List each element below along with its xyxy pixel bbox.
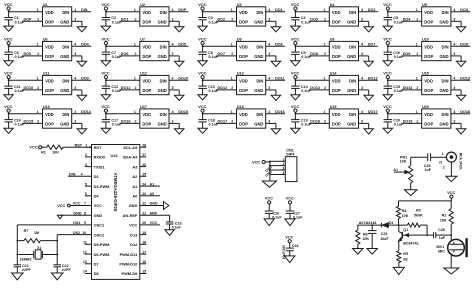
- svg-text:13: 13: [83, 260, 87, 264]
- svg-text:2: 2: [324, 120, 326, 124]
- svg-text:VCC: VCC: [101, 70, 110, 75]
- svg-text:U12: U12: [140, 72, 147, 76]
- svg-text:DO6: DO6: [121, 52, 129, 56]
- svg-text:1: 1: [134, 77, 136, 81]
- svg-text:A0: A0: [359, 221, 364, 225]
- svg-text:VDD: VDD: [142, 79, 151, 84]
- svg-text:U10: U10: [422, 38, 429, 42]
- svg-text:D4: D4: [94, 194, 100, 199]
- svg-text:R7: R7: [24, 229, 29, 233]
- svg-text:DO17: DO17: [368, 110, 378, 114]
- svg-text:3: 3: [172, 120, 174, 124]
- svg-text:GND: GND: [60, 121, 69, 126]
- svg-text:R5: R5: [403, 252, 408, 256]
- svg-text:3: 3: [85, 163, 87, 167]
- svg-text:GND: GND: [158, 54, 167, 59]
- svg-text:1: 1: [416, 77, 418, 81]
- svg-text:DIN: DIN: [62, 10, 69, 15]
- svg-text:DO17: DO17: [218, 120, 228, 124]
- svg-text:U8: U8: [237, 38, 242, 42]
- svg-text:3: 3: [74, 86, 76, 90]
- svg-text:VCC: VCC: [198, 70, 207, 75]
- svg-text:R6: R6: [363, 232, 368, 236]
- svg-text:GND: GND: [347, 19, 356, 24]
- svg-text:U7: U7: [140, 38, 145, 42]
- svg-text:1: 1: [37, 77, 39, 81]
- svg-text:VCC: VCC: [198, 36, 207, 41]
- svg-text:GND: GND: [347, 88, 356, 93]
- svg-text:DIN: DIN: [442, 79, 449, 84]
- svg-text:GND: GND: [150, 202, 159, 206]
- svg-text:DOP: DOP: [424, 19, 433, 24]
- svg-text:DO11: DO11: [275, 77, 284, 81]
- svg-text:2: 2: [135, 120, 137, 124]
- svg-text:DIN: DIN: [160, 45, 167, 50]
- svg-text:DO16: DO16: [121, 120, 131, 124]
- svg-text:10: 10: [82, 231, 86, 235]
- svg-text:U20: U20: [422, 105, 429, 109]
- svg-text:2: 2: [37, 120, 39, 124]
- svg-text:2: 2: [231, 52, 233, 56]
- svg-text:1: 1: [323, 43, 325, 47]
- svg-text:VCC: VCC: [383, 104, 392, 109]
- svg-text:10K: 10K: [402, 214, 409, 218]
- svg-text:DIN: DIN: [160, 10, 167, 15]
- svg-text:VDD: VDD: [332, 45, 341, 50]
- svg-text:A0: A0: [150, 192, 155, 196]
- svg-text:3: 3: [74, 52, 76, 56]
- svg-text:U19: U19: [330, 105, 337, 109]
- svg-text:DOP: DOP: [45, 121, 54, 126]
- svg-text:DIN: DIN: [349, 112, 356, 117]
- svg-text:4: 4: [74, 8, 76, 12]
- svg-text:VCC: VCC: [4, 36, 13, 41]
- svg-text:VDD: VDD: [45, 79, 54, 84]
- svg-text:4: 4: [282, 171, 284, 175]
- svg-text:3: 3: [361, 18, 363, 22]
- svg-text:VCC: VCC: [150, 221, 158, 225]
- svg-text:U1: U1: [43, 3, 48, 7]
- svg-text:DO18: DO18: [310, 120, 320, 124]
- svg-text:6: 6: [85, 192, 87, 196]
- svg-text:7: 7: [84, 202, 86, 206]
- svg-text:DO13: DO13: [310, 86, 320, 90]
- svg-text:VDD: VDD: [424, 112, 433, 117]
- svg-text:SCL-A5: SCL-A5: [123, 145, 138, 150]
- svg-text:16MHZ: 16MHZ: [20, 257, 33, 261]
- svg-text:2: 2: [231, 18, 233, 22]
- svg-text:VCC: VCC: [383, 2, 392, 7]
- svg-text:VDD: VDD: [332, 79, 341, 84]
- svg-text:1: 1: [37, 43, 39, 47]
- svg-text:12: 12: [83, 250, 87, 254]
- svg-text:VDD: VDD: [45, 45, 54, 50]
- svg-text:DO3: DO3: [460, 8, 468, 12]
- svg-text:RCA JACK: RCA JACK: [458, 153, 462, 171]
- svg-text:DO1: DO1: [275, 8, 283, 12]
- svg-text:3: 3: [74, 18, 76, 22]
- svg-text:22: 22: [142, 202, 146, 206]
- svg-text:VCC: VCC: [101, 2, 110, 7]
- svg-text:10K: 10K: [400, 159, 407, 163]
- svg-text:OS2: OS2: [73, 231, 80, 235]
- svg-text:2: 2: [231, 120, 233, 124]
- svg-text:GND: GND: [347, 121, 356, 126]
- svg-text:DIN: DIN: [349, 10, 356, 15]
- svg-text:X1: X1: [37, 246, 41, 250]
- svg-text:U16: U16: [43, 105, 50, 109]
- svg-text:DO12: DO12: [368, 77, 378, 81]
- svg-text:DO8: DO8: [460, 43, 468, 47]
- svg-text:DIN: DIN: [62, 45, 69, 50]
- svg-text:1: 1: [416, 110, 418, 114]
- svg-text:1M: 1M: [34, 231, 39, 235]
- svg-text:VCC: VCC: [4, 70, 13, 75]
- svg-text:VDD: VDD: [142, 10, 151, 15]
- svg-text:A1: A1: [132, 184, 138, 189]
- svg-text:4: 4: [453, 110, 455, 114]
- svg-text:GND: GND: [254, 19, 263, 24]
- svg-text:DO7: DO7: [218, 52, 226, 56]
- svg-text:ARF: ARF: [150, 211, 158, 215]
- svg-text:4: 4: [172, 110, 174, 114]
- svg-text:DO2: DO2: [218, 18, 226, 22]
- svg-text:GND: GND: [60, 88, 69, 93]
- svg-text:DO15: DO15: [178, 110, 188, 114]
- svg-text:GND: GND: [60, 54, 69, 59]
- svg-text:A2: A2: [132, 174, 138, 179]
- svg-text:OSC1: OSC1: [94, 223, 105, 228]
- svg-text:28: 28: [142, 143, 146, 147]
- svg-text:GND: GND: [158, 121, 167, 126]
- svg-text:2: 2: [37, 52, 39, 56]
- svg-text:1uF: 1uF: [439, 236, 446, 240]
- svg-text:DO12: DO12: [218, 86, 228, 90]
- svg-text:DOP: DOP: [332, 19, 341, 24]
- svg-text:VCC: VCC: [286, 196, 294, 201]
- svg-text:VCC: VCC: [94, 203, 102, 208]
- svg-text:15: 15: [142, 270, 146, 274]
- svg-text:DOP: DOP: [239, 121, 248, 126]
- svg-text:VDD: VDD: [45, 10, 54, 15]
- svg-text:OS1: OS1: [73, 221, 80, 225]
- svg-text:D8: D8: [94, 271, 100, 276]
- svg-text:SDA-A4: SDA-A4: [123, 155, 138, 160]
- svg-text:2: 2: [37, 18, 39, 22]
- svg-text:1: 1: [416, 8, 418, 12]
- svg-text:3: 3: [282, 167, 284, 171]
- svg-text:1: 1: [231, 8, 233, 12]
- svg-text:8: 8: [84, 211, 86, 215]
- svg-text:4: 4: [74, 77, 76, 81]
- svg-text:DO11: DO11: [121, 86, 130, 90]
- svg-text:VCC: VCC: [291, 70, 300, 75]
- svg-text:20: 20: [142, 221, 146, 225]
- svg-text:GND: GND: [158, 88, 167, 93]
- svg-text:DOP: DOP: [142, 19, 151, 24]
- svg-text:DO1: DO1: [121, 18, 129, 22]
- svg-text:VDD: VDD: [424, 10, 433, 15]
- svg-text:VDD: VDD: [239, 112, 248, 117]
- svg-text:VDD: VDD: [239, 79, 248, 84]
- svg-text:DIN: DIN: [62, 79, 69, 84]
- svg-text:19: 19: [142, 231, 146, 235]
- svg-text:R2: R2: [442, 214, 447, 218]
- svg-text:VDD: VDD: [142, 112, 151, 117]
- svg-text:DO4: DO4: [403, 18, 412, 22]
- svg-text:U9: U9: [330, 38, 335, 42]
- svg-text:1: 1: [231, 43, 233, 47]
- svg-text:16: 16: [142, 260, 146, 264]
- svg-text:U14: U14: [330, 72, 338, 76]
- svg-text:GND: GND: [439, 121, 448, 126]
- svg-text:3: 3: [268, 120, 270, 124]
- svg-text:3: 3: [453, 120, 455, 124]
- svg-text:U15: U15: [422, 72, 429, 76]
- svg-text:4: 4: [268, 8, 270, 12]
- svg-text:R1: R1: [41, 150, 46, 154]
- svg-text:C29: C29: [381, 232, 388, 236]
- svg-text:1: 1: [231, 77, 233, 81]
- svg-text:U2: U2: [140, 3, 145, 7]
- svg-text:3: 3: [268, 18, 270, 22]
- svg-text:1: 1: [416, 43, 418, 47]
- svg-text:R3: R3: [416, 209, 421, 213]
- svg-text:PWM-D9: PWM-D9: [122, 271, 139, 276]
- svg-text:RST: RST: [94, 145, 102, 150]
- svg-text:VCC: VCC: [252, 159, 260, 164]
- svg-text:0.1uF: 0.1uF: [272, 215, 282, 219]
- svg-text:DIN: DIN: [256, 112, 263, 117]
- svg-text:DO9: DO9: [81, 77, 89, 81]
- svg-text:25: 25: [142, 173, 146, 177]
- svg-text:DIN: DIN: [349, 79, 356, 84]
- svg-text:GND: GND: [439, 54, 448, 59]
- svg-text:2: 2: [135, 52, 137, 56]
- svg-text:GND: GND: [254, 88, 263, 93]
- svg-text:DIN: DIN: [349, 45, 356, 50]
- svg-text:U18: U18: [237, 105, 244, 109]
- svg-text:VCC: VCC: [4, 104, 13, 109]
- svg-text:DIN: DIN: [160, 79, 167, 84]
- svg-text:GND: GND: [439, 19, 448, 24]
- svg-text:DIN: DIN: [256, 79, 263, 84]
- svg-text:DOP: DOP: [239, 54, 248, 59]
- svg-text:10K: 10K: [440, 218, 447, 222]
- svg-text:DO14: DO14: [81, 110, 92, 114]
- svg-text:VDD: VDD: [332, 10, 341, 15]
- svg-text:PWM-D10: PWM-D10: [119, 262, 137, 267]
- svg-text:U5: U5: [422, 3, 427, 7]
- svg-text:2: 2: [416, 120, 418, 124]
- svg-text:2: 2: [231, 86, 233, 90]
- svg-text:D13: D13: [130, 232, 138, 237]
- svg-text:OSC2: OSC2: [94, 232, 105, 237]
- svg-text:A1: A1: [393, 168, 398, 172]
- svg-text:560K: 560K: [414, 213, 423, 217]
- svg-text:DIN: DIN: [442, 10, 449, 15]
- svg-text:TX/D1: TX/D1: [94, 164, 106, 169]
- svg-text:DOP: DOP: [142, 121, 151, 126]
- svg-text:4: 4: [81, 173, 83, 177]
- svg-text:1: 1: [37, 110, 39, 114]
- svg-text:3: 3: [268, 52, 270, 56]
- svg-text:VCC: VCC: [383, 36, 392, 41]
- svg-text:1: 1: [37, 8, 39, 12]
- svg-text:DO5: DO5: [24, 52, 32, 56]
- svg-text:DOP: DOP: [424, 54, 433, 59]
- svg-text:DO8: DO8: [310, 52, 318, 56]
- svg-text:2: 2: [135, 18, 137, 22]
- svg-text:18: 18: [142, 241, 146, 245]
- svg-text:2: 2: [324, 18, 326, 22]
- svg-text:GND: GND: [347, 54, 356, 59]
- svg-text:VCC: VCC: [57, 204, 65, 208]
- svg-text:D7: D7: [94, 262, 99, 267]
- svg-text:4: 4: [74, 110, 76, 114]
- svg-text:9: 9: [84, 221, 86, 225]
- svg-text:VCC: VCC: [447, 190, 455, 195]
- svg-text:GND: GND: [254, 54, 263, 59]
- svg-text:U17: U17: [140, 105, 147, 109]
- svg-text:1: 1: [442, 152, 444, 156]
- svg-text:DOP: DOP: [45, 54, 54, 59]
- svg-text:U13: U13: [237, 72, 244, 76]
- svg-text:AN-REF: AN-REF: [123, 213, 138, 218]
- svg-text:0E: 0E: [403, 258, 408, 262]
- svg-text:10uF: 10uF: [380, 237, 389, 241]
- svg-text:10K: 10K: [52, 150, 59, 154]
- svg-text:3: 3: [453, 52, 455, 56]
- svg-text:2: 2: [37, 86, 39, 90]
- svg-text:DOP: DOP: [142, 88, 151, 93]
- svg-text:1: 1: [134, 8, 136, 12]
- svg-text:DOP: DOP: [332, 54, 341, 59]
- svg-text:2: 2: [324, 52, 326, 56]
- svg-text:DOP: DOP: [45, 19, 54, 24]
- svg-text:DIN: DIN: [442, 45, 449, 50]
- svg-text:17: 17: [142, 250, 146, 254]
- svg-text:3: 3: [172, 86, 174, 90]
- svg-text:VDD: VDD: [142, 45, 151, 50]
- svg-text:DO7: DO7: [368, 43, 376, 47]
- svg-text:VCC: VCC: [291, 104, 300, 109]
- svg-text:GND: GND: [254, 121, 263, 126]
- svg-text:DIN: DIN: [81, 8, 88, 12]
- svg-text:DO10: DO10: [24, 86, 34, 90]
- svg-text:D1: D1: [389, 221, 394, 225]
- svg-text:DO4: DO4: [81, 43, 90, 47]
- svg-text:A3: A3: [132, 164, 138, 169]
- svg-text:3: 3: [74, 120, 76, 124]
- svg-text:4: 4: [74, 43, 76, 47]
- svg-text:4: 4: [172, 43, 174, 47]
- svg-text:GND: GND: [60, 19, 69, 24]
- svg-text:3: 3: [268, 86, 270, 90]
- svg-text:VDD: VDD: [332, 112, 341, 117]
- svg-text:22PF: 22PF: [22, 268, 32, 272]
- svg-text:1N4148: 1N4148: [364, 221, 377, 225]
- svg-text:4: 4: [453, 43, 455, 47]
- svg-text:DO14: DO14: [403, 86, 414, 90]
- svg-text:3: 3: [453, 18, 455, 22]
- svg-text:DO9: DO9: [403, 52, 411, 56]
- svg-text:2: 2: [416, 86, 418, 90]
- svg-text:DO15: DO15: [24, 120, 34, 124]
- svg-text:DIN: DIN: [442, 112, 449, 117]
- svg-text:3: 3: [361, 120, 363, 124]
- svg-text:VCC: VCC: [29, 144, 38, 149]
- svg-text:3: 3: [172, 52, 174, 56]
- svg-text:GND: GND: [94, 213, 103, 218]
- svg-text:1: 1: [323, 77, 325, 81]
- svg-text:DOP: DOP: [332, 88, 341, 93]
- svg-text:2: 2: [135, 86, 137, 90]
- svg-text:DO13: DO13: [460, 77, 470, 81]
- svg-text:14: 14: [83, 270, 87, 274]
- svg-text:D6-PWM: D6-PWM: [94, 252, 110, 257]
- svg-text:GND: GND: [158, 19, 167, 24]
- svg-text:DOP: DOP: [239, 19, 248, 24]
- svg-text:DIN: DIN: [256, 10, 263, 15]
- svg-text:VCC: VCC: [198, 104, 207, 109]
- svg-text:VCC: VCC: [291, 2, 300, 7]
- svg-text:DOP: DOP: [424, 88, 433, 93]
- svg-text:11: 11: [83, 241, 87, 245]
- svg-text:4: 4: [453, 8, 455, 12]
- svg-text:GND: GND: [73, 211, 82, 215]
- svg-text:D12: D12: [130, 242, 138, 247]
- svg-text:ATMEGA328-DIP28: ATMEGA328-DIP28: [113, 173, 118, 212]
- svg-text:C24: C24: [292, 244, 299, 248]
- svg-text:MIC: MIC: [438, 249, 445, 253]
- svg-text:2: 2: [443, 165, 445, 169]
- svg-text:VCC: VCC: [198, 2, 207, 7]
- svg-text:RX/D0: RX/D0: [94, 155, 105, 160]
- svg-text:DO18: DO18: [460, 110, 470, 114]
- svg-text:2: 2: [416, 52, 418, 56]
- svg-text:J1: J1: [439, 160, 443, 164]
- svg-text:RST: RST: [75, 143, 83, 147]
- svg-text:SIP4: SIP4: [286, 152, 295, 156]
- svg-text:4: 4: [453, 77, 455, 81]
- svg-text:10uF/16V: 10uF/16V: [282, 244, 286, 259]
- svg-text:DO10: DO10: [178, 77, 188, 81]
- svg-text:BC847AL: BC847AL: [403, 242, 420, 246]
- svg-text:DIN: DIN: [69, 173, 76, 177]
- svg-text:2: 2: [85, 153, 87, 157]
- svg-text:VDD: VDD: [45, 112, 54, 117]
- svg-text:DO3: DO3: [310, 18, 318, 22]
- svg-text:DO2: DO2: [368, 8, 376, 12]
- svg-text:VCC: VCC: [285, 234, 293, 239]
- svg-text:D3-PWM: D3-PWM: [94, 184, 110, 189]
- svg-text:4: 4: [361, 110, 363, 114]
- svg-text:3: 3: [453, 86, 455, 90]
- svg-text:4: 4: [172, 8, 174, 12]
- svg-text:GND: GND: [129, 203, 138, 208]
- svg-text:0.1uF: 0.1uF: [293, 215, 303, 219]
- svg-text:DO16: DO16: [275, 110, 285, 114]
- svg-text:DIN: DIN: [256, 45, 263, 50]
- svg-text:VCC: VCC: [101, 36, 110, 41]
- svg-text:VCC: VCC: [265, 196, 273, 201]
- svg-text:23: 23: [142, 192, 146, 196]
- svg-text:2: 2: [416, 18, 418, 22]
- svg-text:3: 3: [361, 86, 363, 90]
- svg-text:1: 1: [134, 43, 136, 47]
- svg-text:DOP: DOP: [239, 88, 248, 93]
